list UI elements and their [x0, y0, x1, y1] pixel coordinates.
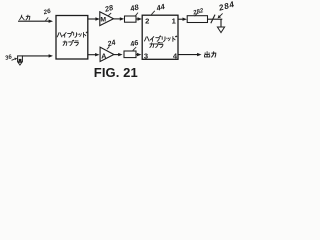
svg-text:FIG. 21: FIG. 21	[94, 65, 138, 80]
ground	[217, 27, 224, 33]
amplifier M (bottom)	[100, 47, 114, 61]
label 36 (termination)	[5, 54, 14, 62]
svg-text:2: 2	[145, 16, 149, 25]
pin 2	[145, 16, 149, 25]
leader slash for label 46	[133, 47, 136, 51]
pin 3	[144, 52, 148, 61]
caption FIG. 21	[94, 65, 138, 80]
label 50b	[192, 7, 205, 17]
wire: port 4 to output	[178, 53, 202, 56]
leader slash for label 28	[108, 13, 111, 16]
leader arrow for label 284	[218, 13, 223, 18]
wire: top amplifier to box 48	[114, 17, 125, 20]
wire: box 50b to ground junction	[208, 18, 223, 20]
input label 入力	[20, 15, 30, 20]
svg-text:3: 3	[144, 52, 148, 61]
wire: input line to hybrid coupler 26	[18, 20, 53, 23]
leader arrow to termination resistor	[12, 58, 18, 61]
label 26 (input line)	[42, 8, 52, 17]
box 46 (bottom path)	[124, 51, 136, 58]
pin 1	[172, 16, 177, 25]
text カプラ (left box, line 2)	[63, 40, 78, 46]
termination box 50b (top right)	[187, 16, 207, 23]
hybrid coupler box (left)	[56, 16, 88, 60]
pin 4	[173, 52, 178, 61]
label 28 (top amplifier)	[103, 3, 115, 14]
output label 出力	[204, 52, 215, 58]
wire: bottom amplifier to box 46	[114, 53, 123, 56]
svg-text:M: M	[100, 17, 106, 24]
label 46	[128, 38, 140, 49]
wire: port 1 to termination box 50b	[178, 18, 187, 21]
wire: box 46 to right coupler port 3	[136, 53, 141, 56]
leader slash for label 50b	[195, 13, 198, 16]
wire: junction down to ground	[220, 19, 222, 27]
leader slash for label 44	[151, 11, 154, 15]
leader slash for label 24	[107, 46, 110, 49]
amplifier M (top)	[100, 12, 114, 26]
text ハイブリッド (left box, line 1)	[57, 32, 87, 38]
text カプラ (right box)	[150, 42, 163, 48]
label 44 (right hybrid coupler)	[154, 2, 165, 13]
termination resistor box (bottom-left)	[18, 56, 23, 65]
leader slash for label 26	[45, 17, 48, 21]
leader slash for label 284	[211, 15, 215, 24]
label 284	[217, 0, 236, 13]
label 48	[128, 2, 140, 13]
wire: termination to left coupler bottom port	[22, 54, 53, 57]
wire: left coupler bottom output to amplifier M (bottom)	[88, 53, 100, 56]
box 48 (top path)	[125, 16, 137, 22]
label 24 (bottom amplifier)	[105, 38, 116, 49]
leader slash for label 48	[135, 13, 138, 16]
hybrid coupler 44 box (right)	[142, 15, 178, 59]
svg-text:A: A	[101, 51, 106, 60]
text ハイブリッド (right box)	[144, 36, 176, 42]
wire: box 48 to right coupler port 2	[136, 17, 142, 20]
wire: left coupler top output to amplifier M (top)	[88, 17, 100, 20]
